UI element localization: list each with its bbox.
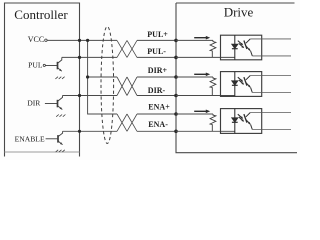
node: VCC bus tap top [86,39,89,42]
output wire emitter [252,92,291,94]
PUL terminal circle [43,64,45,66]
current arrow [194,37,207,39]
node PUL+ terminal [174,39,178,43]
LED of U3 [232,109,238,134]
node: DIR- exits controller [78,94,81,97]
svg-text:ENABLE: ENABLE [15,134,45,143]
current arrow [194,73,207,75]
controller box [5,3,80,157]
ground (Q2 emitter) [56,115,65,117]
twisted pair ENA [117,114,137,131]
node PUL- terminal [174,56,178,60]
wire DIR+ right [137,76,176,78]
node ENA+ terminal [174,112,178,116]
wire VCC / PUL+ left [47,39,117,41]
wire PUL- inside drive [176,56,235,58]
svg-text:DIR-: DIR- [148,86,166,95]
svg-text:ENA-: ENA- [148,120,168,129]
output wire collector [250,38,291,40]
output wire collector [250,75,291,77]
node: ENA- exits controller [78,130,81,133]
drive box [176,3,297,153]
svg-text:Controller: Controller [14,7,68,22]
node: VCC exits controller [78,39,81,42]
wire DIR+ inside drive [176,76,213,78]
wire DIR- inside drive [176,95,235,97]
light arrows [238,77,244,85]
optocoupler U2 box [221,72,262,97]
wire ENA- inside drive [176,130,235,132]
transistor Q2 (DIR, open collector) [45,96,63,110]
wire ENA+ left (from VCC bus corner) [88,40,117,114]
node: bus tap DIR+ [86,75,89,78]
resistor R3 [210,114,216,131]
twisted pair DIR [117,77,137,96]
phototransistor of U1 [244,39,252,56]
current arrow [194,110,207,112]
optocoupler U3 box [221,109,262,134]
optocoupler U1 box [221,35,262,60]
wire ENA+ right [137,113,176,115]
svg-text:VCC: VCC [28,35,44,44]
wire PUL+ right [137,39,176,41]
wire DIR+ left (from VCC bus) [88,76,117,78]
phototransistor of U3 [244,113,252,130]
transistor Q1 (PUL, open collector) [45,57,61,71]
wire ENA- left (from Q3 collector) [63,130,117,132]
wire PUL- left (from Q1 collector) [62,56,117,58]
node DIR- terminal [174,94,178,98]
ground (Q3 emitter) [56,150,65,152]
svg-text:DIR+: DIR+ [148,66,168,75]
LED of U2 [232,72,238,97]
twisted pair PUL [117,40,137,57]
svg-text:PUL+: PUL+ [147,30,168,39]
output wire emitter [252,55,291,57]
svg-text:ENA+: ENA+ [148,102,170,111]
output wire emitter [252,129,291,131]
wires: main horizontals [47,40,176,131]
svg-text:PUL: PUL [28,60,43,69]
wire ENA- right [137,130,176,132]
wire DIR- left (from Q2 collector) [63,95,118,97]
light arrows [238,114,244,122]
node DIR+ terminal [174,75,178,79]
wire PUL- right [137,56,176,58]
wire ENA+ inside drive [176,113,213,115]
svg-text:PUL-: PUL- [147,47,166,56]
ground (Q1 emitter) [55,77,64,79]
wire PUL+ inside drive [176,39,213,41]
transistor Q3 (ENABLE, open collector) [46,131,63,144]
node ENA- terminal [174,130,178,134]
phototransistor of U2 [244,76,252,93]
node: PUL- exits controller [78,56,81,59]
resistor R1 [210,40,216,57]
output wire collector [250,112,291,114]
wire DIR- right [137,95,176,97]
VCC terminal circle [45,39,47,41]
svg-text:DIR: DIR [27,98,41,107]
shield ellipse (cable) [101,27,114,144]
LED of U1 [232,35,238,60]
svg-text:Drive: Drive [224,5,254,20]
light arrows [238,41,244,49]
resistor R2 [210,77,216,96]
